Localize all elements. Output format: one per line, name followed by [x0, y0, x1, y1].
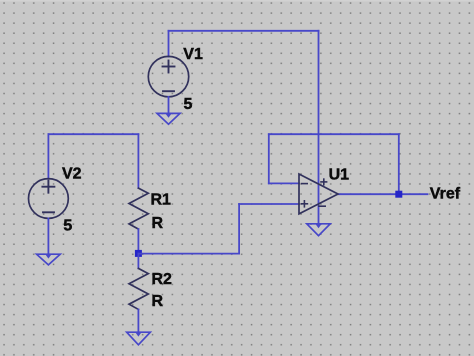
wire top horizontal V1 to opamp V+: [169, 30, 319, 32]
svg-text:R1: R1: [151, 192, 172, 209]
wire V1 ground stub: [168, 97, 170, 114]
wire opamp output: [338, 193, 428, 195]
svg-text:R: R: [152, 215, 164, 232]
wire V2 ground stub: [47, 218, 49, 254]
node Vref square: [395, 191, 402, 198]
svg-text:V2: V2: [62, 165, 82, 182]
wire V1 top stub: [168, 31, 170, 57]
wire vertical up to +input: [238, 204, 240, 254]
wire R2 bottom lead: [137, 309, 139, 332]
svg-text:R2: R2: [152, 271, 173, 288]
svg-text:Vref: Vref: [430, 186, 461, 203]
wire feedback left vertical: [268, 134, 270, 183]
wire V2 top stub: [47, 134, 49, 179]
ground under op-amp: [307, 224, 330, 236]
svg-text:U1: U1: [329, 167, 350, 184]
wire V2 to R1 horizontal: [48, 133, 138, 135]
wire R1 top lead: [137, 134, 139, 188]
svg-text:V1: V1: [183, 46, 203, 63]
ground under V2: [37, 254, 61, 265]
svg-text:5: 5: [184, 96, 193, 113]
voltage source V2: [29, 179, 69, 219]
wire R1 bottom lead: [137, 229, 139, 254]
wire R2 top lead: [137, 254, 139, 269]
wire feedback right vertical: [398, 134, 400, 194]
ground under V1: [157, 113, 180, 124]
svg-text:5: 5: [63, 217, 72, 234]
svg-text:R: R: [152, 293, 164, 310]
voltage source V1: [148, 56, 188, 96]
wire to -input: [269, 182, 299, 184]
wire node to right: [138, 253, 239, 255]
resistor R2: [129, 268, 148, 309]
wire feedback upper horizontal: [269, 133, 399, 135]
ground under R2: [127, 332, 151, 345]
op-amp U1: [299, 174, 338, 214]
junction node R1/R2: [135, 250, 142, 257]
resistor R1: [129, 188, 148, 229]
wire opamp V+ power vertical: [318, 31, 320, 224]
wire horizontal to +input: [239, 203, 299, 205]
